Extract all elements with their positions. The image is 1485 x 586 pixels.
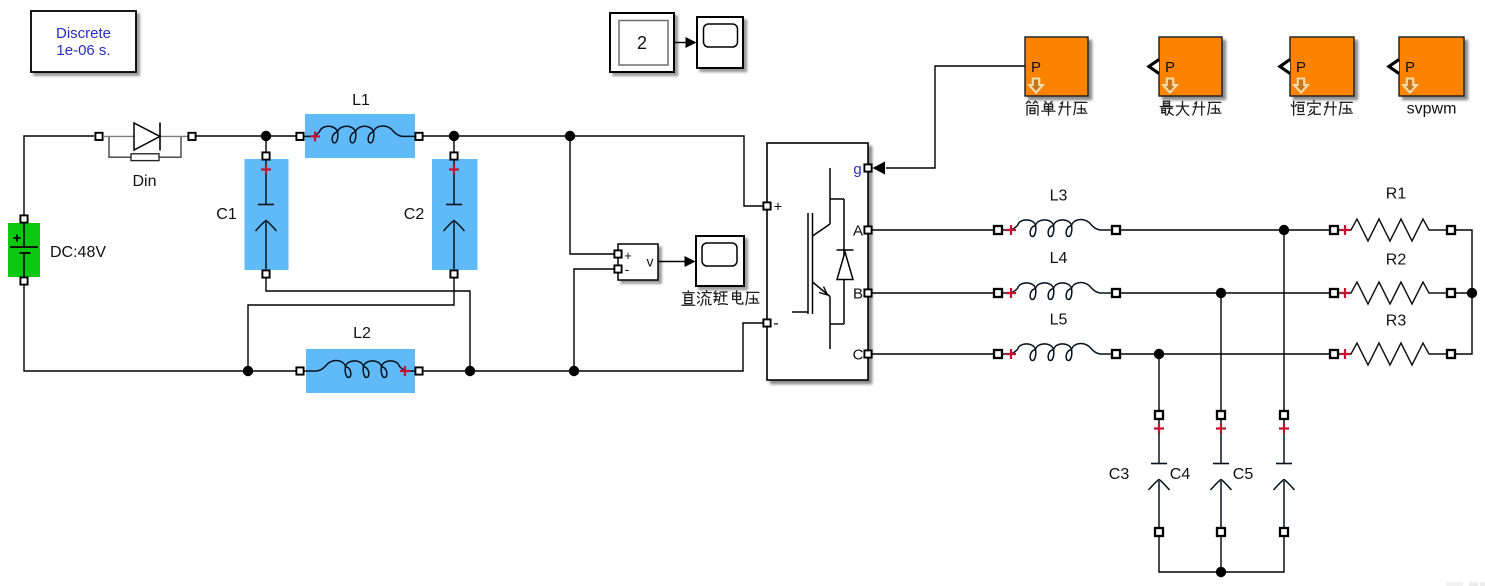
svg-text:2: 2	[637, 33, 647, 53]
svg-text:DC:48V: DC:48V	[50, 244, 106, 261]
svg-text:C5: C5	[1233, 466, 1254, 483]
svg-text:svpwm: svpwm	[1407, 101, 1457, 118]
svg-text:C2: C2	[404, 206, 425, 223]
svg-text:C4: C4	[1170, 466, 1191, 483]
svg-text:P: P	[1031, 59, 1041, 76]
svg-text:R3: R3	[1386, 313, 1407, 330]
svg-text:Din: Din	[132, 173, 156, 190]
svg-text:A: A	[853, 223, 863, 240]
svg-text:R1: R1	[1386, 186, 1407, 203]
svg-text:L4: L4	[1050, 250, 1068, 267]
svg-text:R2: R2	[1386, 252, 1407, 269]
svg-text:L3: L3	[1050, 188, 1068, 205]
svg-text:B: B	[853, 286, 863, 303]
svg-text:L2: L2	[353, 325, 371, 342]
svg-text:-: -	[773, 315, 778, 332]
svg-text:P: P	[1165, 59, 1175, 76]
svg-text:C3: C3	[1109, 466, 1130, 483]
svg-text:L5: L5	[1050, 312, 1068, 329]
svg-text:C: C	[853, 347, 864, 364]
svg-text:+: +	[774, 199, 783, 216]
svg-text:v: v	[647, 254, 654, 270]
svg-text:-: -	[625, 261, 630, 277]
svg-text:1e-06 s.: 1e-06 s.	[56, 42, 110, 59]
svg-text:P: P	[1296, 59, 1306, 76]
svg-text:P: P	[1405, 59, 1415, 76]
svg-text:L1: L1	[352, 92, 370, 109]
svg-text:g: g	[853, 161, 861, 178]
svg-text:C1: C1	[216, 206, 237, 223]
svg-text:Discrete: Discrete	[56, 25, 111, 42]
